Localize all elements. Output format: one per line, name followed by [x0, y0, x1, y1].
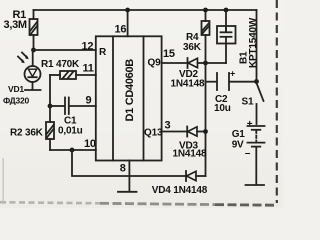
- diode VD3 1N4148: [173, 127, 207, 160]
- svg-text:11: 11: [83, 63, 94, 75]
- wire pin 16: [127, 10, 129, 36]
- svg-text:R: R: [99, 47, 107, 58]
- node junction C1/R2/470K: [48, 104, 53, 109]
- wire pin 15: [162, 62, 187, 64]
- wire node column down: [205, 63, 207, 176]
- svg-text:12: 12: [82, 41, 94, 53]
- svg-text:Q13: Q13: [144, 127, 163, 138]
- node junction pin10/VD4 branch: [70, 148, 75, 153]
- svg-text:36K: 36K: [183, 42, 202, 53]
- svg-text:+: +: [247, 119, 253, 130]
- node junction R1/VD1/pin12: [31, 48, 36, 53]
- svg-text:9: 9: [86, 95, 92, 107]
- svg-text:10u: 10u: [214, 103, 231, 114]
- svg-text:–: –: [245, 148, 251, 159]
- buzzer B1 KPT1540W: [217, 8, 259, 68]
- svg-text:8: 8: [120, 163, 126, 175]
- svg-text:16: 16: [115, 24, 127, 36]
- border dashed right: [276, 0, 278, 203]
- diode VD2 1N4148: [171, 58, 206, 89]
- wire pin 10: [50, 149, 96, 151]
- svg-text:G1: G1: [232, 129, 246, 140]
- border dashed bottom light left part: [0, 202, 100, 203]
- wire pin 3: [162, 131, 187, 133]
- border dashed bottom dark right part: [215, 203, 277, 206]
- svg-text:15: 15: [163, 48, 175, 60]
- svg-text:10: 10: [84, 138, 96, 150]
- svg-text:VD4 1N4148: VD4 1N4148: [152, 185, 208, 196]
- svg-text:3,3M: 3,3M: [4, 19, 27, 31]
- svg-text:ФД320: ФД320: [3, 95, 30, 105]
- diode VD4 1N4148: [152, 171, 208, 196]
- border dashed bottom middle part: [100, 203, 215, 204]
- svg-text:R1 470K: R1 470K: [41, 59, 80, 70]
- node junction VD3/column: [203, 129, 208, 134]
- capacitor C2 10u: [206, 69, 257, 115]
- switch S1: [242, 10, 264, 124]
- svg-text:D1 CD4060B: D1 CD4060B: [124, 59, 136, 122]
- battery G1 9V: [232, 119, 265, 185]
- ground under VD1: [25, 89, 41, 91]
- ground under battery: [246, 184, 265, 186]
- svg-text:+: +: [230, 69, 235, 79]
- IC D1 CD4060B box: [96, 36, 163, 160]
- svg-text:R2 36K: R2 36K: [10, 128, 44, 139]
- svg-text:1N4148: 1N4148: [173, 149, 207, 160]
- capacitor C1 0.01u: [50, 98, 96, 137]
- svg-text:3: 3: [165, 120, 171, 132]
- wire down from pin10 node: [72, 150, 186, 176]
- wire top supply rail: [34, 9, 257, 11]
- svg-text:0,01u: 0,01u: [58, 126, 83, 137]
- ground under pin 8: [118, 191, 137, 193]
- svg-text:Q9: Q9: [148, 58, 162, 69]
- photodiode VD1 FD320: [3, 50, 41, 105]
- resistor R1 3.3M: [4, 9, 38, 50]
- wire 470K left down to C1 node: [49, 75, 51, 106]
- node junction VD2/R4: [203, 61, 208, 66]
- svg-text:1N4148: 1N4148: [171, 78, 205, 89]
- svg-text:9V: 9V: [232, 140, 244, 151]
- wire VD2 node to B1: [206, 62, 227, 64]
- wire pin 8: [128, 161, 130, 192]
- resistor R2 36K: [10, 106, 54, 150]
- border faint left: [2, 158, 4, 202]
- resistor R1 470K: [41, 59, 96, 79]
- node junction R4/top rail: [203, 8, 208, 13]
- svg-text:S1: S1: [242, 97, 254, 108]
- wire pin 12: [34, 49, 96, 51]
- resistor R4 36K: [183, 10, 210, 63]
- svg-text:VD1: VD1: [8, 84, 24, 94]
